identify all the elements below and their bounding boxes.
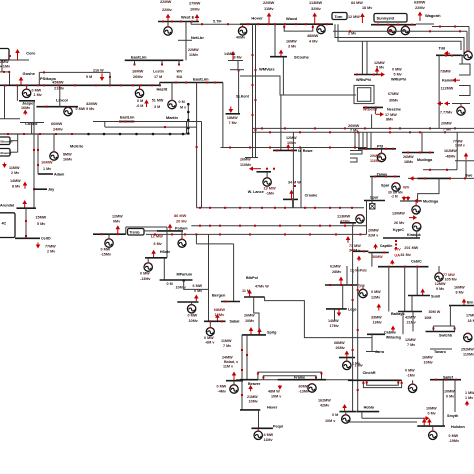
- svg-text:13 MW: 13 MW: [263, 185, 276, 190]
- flow mark: [299, 147, 301, 149]
- flow mark: [329, 147, 331, 149]
- stepped line WMVars: [240, 76, 356, 95]
- wire: [366, 41, 368, 74]
- wire Core: [8, 59, 30, 61]
- wire left down: [241, 335, 243, 410]
- flow mark: [429, 152, 431, 154]
- generator 68MW: [343, 361, 351, 369]
- svg-text:22Mv: 22Mv: [162, 7, 173, 12]
- svg-text:Hover: Hover: [251, 16, 263, 21]
- flow mark: [375, 106, 377, 108]
- bus Tyre: [325, 284, 357, 286]
- svg-text:15MW: 15MW: [36, 216, 47, 220]
- svg-text:16Mv: 16Mv: [63, 158, 73, 162]
- svg-text:WV: WV: [403, 185, 410, 190]
- svg-text:5.TIF: 5.TIF: [213, 20, 222, 24]
- flow mark: [392, 148, 394, 150]
- flow mark: [221, 320, 223, 322]
- svg-text:-2 M: -2 M: [391, 195, 398, 199]
- bus CablC: [378, 266, 429, 268]
- load arrow down Frame: [278, 385, 283, 390]
- svg-text:WRlsPhl: WRlsPhl: [391, 78, 406, 82]
- svg-text:81 Mv: 81 Mv: [401, 253, 412, 257]
- stub: [334, 309, 336, 320]
- flow mark: [33, 188, 35, 190]
- svg-text:20MW: 20MW: [348, 123, 360, 128]
- flow mark: [329, 225, 331, 227]
- flow mark: [394, 176, 396, 178]
- svg-text:1 Mv: 1 Mv: [43, 167, 52, 171]
- svg-text:11Mv: 11Mv: [189, 53, 199, 57]
- load arrow: [116, 225, 121, 233]
- bus WtDefdr: [363, 106, 383, 108]
- wire step2 to Mudinga: [418, 178, 439, 201]
- flow mark: [164, 126, 166, 128]
- svg-text:0 MW: 0 MW: [217, 385, 227, 389]
- stepped wire to Jarra: [265, 297, 372, 338]
- bus connector: [159, 83, 161, 86]
- flow mark: [199, 225, 201, 227]
- svg-text:Neezine: Neezine: [387, 108, 401, 112]
- flow mark: [385, 176, 387, 178]
- svg-text:Balad, v: Balad, v: [224, 360, 239, 364]
- flow mark: [252, 114, 254, 116]
- flow mark: [419, 152, 421, 154]
- svg-text:Trento: Trento: [130, 231, 140, 235]
- wire: [237, 61, 239, 70]
- bus Porlam: [157, 230, 183, 232]
- load arrow below bus: [357, 256, 362, 262]
- flow mark: [180, 21, 182, 23]
- svg-text:-6 M: -6 M: [136, 104, 143, 108]
- wire Kamm: [438, 55, 440, 128]
- load arrow Wood: [312, 13, 317, 24]
- svg-text:0 MW: 0 MW: [188, 314, 198, 318]
- svg-text:30M W: 30M W: [429, 310, 441, 314]
- flow arrow Kamm: [452, 78, 460, 83]
- junction: [103, 133, 106, 136]
- svg-text:32M v: 32M v: [368, 234, 379, 238]
- wire: [246, 335, 248, 380]
- svg-text:42MW: 42MW: [405, 316, 416, 320]
- flow mark: [383, 252, 385, 254]
- svg-text:84 MW: 84 MW: [351, 1, 363, 5]
- gen stem: [362, 285, 364, 290]
- bus left continuation: [0, 133, 86, 135]
- flow mark: [362, 382, 364, 384]
- flow mark: [352, 299, 354, 301]
- wire: [456, 161, 458, 170]
- wire: [412, 312, 414, 332]
- wire Jarra: [371, 334, 373, 351]
- flow mark: [276, 149, 278, 151]
- svg-text:47Mv W: 47Mv W: [255, 285, 269, 289]
- wire connector: [186, 122, 188, 135]
- flow mark: [315, 377, 317, 379]
- svg-text:11MW: 11MW: [9, 166, 20, 170]
- svg-text:32MW: 32MW: [86, 101, 98, 106]
- wire down-left: [4, 85, 6, 119]
- svg-text:0 MW: 0 MW: [405, 369, 415, 373]
- wire: [432, 326, 434, 332]
- gen stem: [26, 85, 28, 90]
- flow mark: [74, 84, 76, 86]
- flow mark: [249, 233, 251, 235]
- flow mark: [299, 131, 301, 133]
- svg-text:2 Mv: 2 Mv: [11, 171, 20, 175]
- svg-text:17MW: 17MW: [466, 314, 474, 318]
- bus EastLim 2: [160, 82, 223, 84]
- flow mark: [117, 233, 119, 235]
- svg-text:16MW: 16MW: [286, 40, 297, 44]
- svg-text:14MW: 14MW: [10, 179, 21, 183]
- flow mark: [8, 71, 10, 73]
- load arrow down Lege: [337, 310, 342, 317]
- generator Martin: [168, 100, 176, 108]
- bus HSale: [145, 257, 167, 259]
- wire: [166, 227, 168, 258]
- wire CablC-Tyre: [346, 266, 348, 285]
- svg-text:5 Mv: 5 Mv: [394, 73, 403, 77]
- gen stem: [346, 358, 348, 362]
- gen stem: [191, 302, 193, 305]
- flow mark: [273, 168, 275, 170]
- junction: [87, 133, 90, 136]
- flow mark: [305, 23, 307, 25]
- svg-text:Sunnysid: Sunnysid: [377, 16, 395, 21]
- svg-text:Turn: Turn: [335, 15, 344, 19]
- svg-text:1 Mv: 1 Mv: [465, 396, 474, 400]
- junction: [119, 133, 122, 136]
- svg-text:10Mv: 10Mv: [245, 319, 255, 323]
- svg-text:22MW: 22MW: [160, 0, 172, 4]
- flow mark: [445, 55, 447, 57]
- svg-text:West E: West E: [181, 15, 195, 20]
- wire SCoshe: [274, 24, 276, 57]
- wire Adam: [37, 134, 39, 174]
- load arrow Goshe: [19, 77, 24, 85]
- flow mark: [269, 131, 271, 133]
- flow mark: [292, 198, 294, 200]
- bus Wagonh: [416, 23, 434, 25]
- bus Swendsi: [418, 177, 451, 179]
- flow mark: [455, 379, 457, 381]
- flow mark: [175, 82, 177, 84]
- svg-text:26MW: 26MW: [240, 158, 251, 162]
- bus Lege: [326, 308, 347, 310]
- wire: [10, 151, 18, 153]
- svg-text:67MW: 67MW: [388, 92, 399, 96]
- svg-text:Adam: Adam: [54, 173, 65, 177]
- svg-text:HSale: HSale: [160, 250, 170, 254]
- flow mark: [344, 127, 346, 129]
- flow mark: [241, 369, 243, 371]
- long line upper: [93, 121, 202, 123]
- flow mark: [109, 76, 111, 78]
- wire down 26MW-mid: [300, 148, 302, 208]
- flow mark: [261, 207, 263, 209]
- flow mark: [397, 382, 399, 384]
- bus Hover-Wood: [240, 23, 333, 25]
- loop rect inner: [357, 88, 370, 102]
- line 5.TIF: [191, 23, 240, 25]
- load arrow: [194, 295, 199, 302]
- svg-text:12 MW: 12 MW: [151, 234, 164, 239]
- svg-text:252MW: 252MW: [461, 348, 474, 352]
- wire to Hulston: [349, 421, 417, 423]
- gen stem: [266, 172, 268, 179]
- flow mark: [5, 84, 7, 86]
- bus Captiln: [368, 252, 388, 254]
- wire down: [59, 85, 61, 106]
- gen stem: [257, 428, 259, 432]
- flow mark: [201, 23, 203, 25]
- flow mark: [255, 129, 257, 131]
- wire: [402, 312, 404, 335]
- flow mark: [309, 233, 311, 235]
- generator 0MW: [105, 239, 113, 247]
- bus Hoblo: [357, 411, 379, 413]
- flow mark: [16, 84, 18, 86]
- bus Pequi: [251, 427, 273, 429]
- svg-text:13Mv: 13Mv: [373, 321, 383, 325]
- load arrow 162MW: [342, 404, 347, 411]
- svg-text:12Mv: 12Mv: [215, 312, 226, 317]
- bus Haver: [240, 409, 260, 411]
- bus Mudinga: [402, 152, 434, 154]
- wire Turn loop2: [335, 24, 464, 58]
- svg-text:4C: 4C: [2, 222, 7, 226]
- load arrow Arundal: [22, 200, 27, 208]
- flow mark: [304, 207, 306, 209]
- junction: [187, 132, 190, 135]
- svg-text:11M v: 11M v: [223, 365, 234, 369]
- svg-text:10Mv: 10Mv: [190, 7, 201, 12]
- wire PStkops: [38, 72, 40, 85]
- svg-text:SLKent: SLKent: [236, 95, 250, 99]
- svg-text:162MW: 162MW: [318, 399, 331, 403]
- bus 162MW: [339, 411, 356, 413]
- load arrow Sunll: [420, 289, 425, 296]
- wire to N.Rowe: [280, 95, 282, 150]
- wire connector: [361, 412, 363, 419]
- wire: [352, 223, 354, 226]
- wire down: [468, 27, 470, 54]
- flow mark: [364, 127, 366, 129]
- generator Sargon: [206, 328, 214, 336]
- svg-text:Smyth: Smyth: [447, 414, 459, 418]
- flow mark: [312, 26, 314, 28]
- svg-text:51 MW: 51 MW: [152, 99, 164, 103]
- generator Hosp: [342, 415, 350, 423]
- svg-text:Swtchb: Swtchb: [439, 334, 453, 338]
- svg-text:21MW: 21MW: [247, 395, 258, 399]
- flow arrow: [437, 101, 443, 106]
- generator HSale: [144, 263, 152, 271]
- load arrow: [376, 304, 381, 311]
- bus 14MW: [228, 60, 243, 62]
- flow mark: [171, 233, 173, 235]
- wire MParlum: [163, 258, 165, 280]
- flow arrow down: [406, 196, 411, 201]
- flow mark: [340, 284, 342, 286]
- svg-text:Kamm: Kamm: [442, 79, 454, 83]
- wire: [190, 22, 192, 25]
- svg-text:6 MW: 6 MW: [193, 284, 203, 288]
- Frame loop inner: [263, 376, 316, 380]
- svg-text:16MW: 16MW: [454, 286, 465, 290]
- bus Beaver: [240, 379, 258, 381]
- flow mark: [247, 23, 249, 25]
- svg-text:-6M v: -6M v: [205, 340, 215, 344]
- bus 71MW: [353, 250, 368, 252]
- svg-text:-1Mv: -1Mv: [266, 192, 275, 196]
- svg-text:KyprC: KyprC: [393, 228, 404, 232]
- flow mark: [252, 54, 254, 56]
- bus Brnch: [449, 305, 474, 307]
- load arrow BthPol: [247, 290, 252, 297]
- svg-text:0 Mv: 0 Mv: [446, 395, 455, 399]
- svg-text:Pequi: Pequi: [273, 425, 283, 429]
- bus 26MW: [245, 157, 258, 159]
- svg-text:12MW: 12MW: [405, 338, 416, 342]
- wire CablC-Ballays2: [404, 267, 406, 312]
- svg-text:8Mv: 8Mv: [386, 118, 394, 122]
- flow mark: [120, 84, 122, 86]
- generator Tyre: [359, 289, 367, 297]
- flow mark: [25, 220, 27, 222]
- svg-text:40Mv: 40Mv: [236, 36, 246, 40]
- junction: [169, 133, 172, 136]
- bus Frame: [278, 379, 326, 381]
- bus Jarra: [366, 351, 379, 353]
- wire step: [423, 169, 457, 171]
- flow mark: [214, 82, 216, 84]
- flow mark: [257, 373, 259, 375]
- gen stem: [108, 234, 110, 239]
- svg-text:Sabal: Sabal: [230, 320, 240, 324]
- flow mark: [339, 207, 341, 209]
- flow mark: [389, 131, 391, 133]
- svg-text:60MW: 60MW: [299, 385, 310, 389]
- svg-text:22MW: 22MW: [263, 0, 275, 5]
- svg-text:10Mv: 10Mv: [189, 319, 199, 323]
- flow mark: [161, 64, 163, 66]
- wire corridor down: [456, 132, 458, 161]
- bus Kiraouk: [383, 237, 420, 239]
- generator Hulston: [429, 431, 437, 439]
- wire: [361, 41, 363, 74]
- svg-text:73MW: 73MW: [440, 70, 451, 74]
- svg-text:3 M: 3 M: [154, 105, 160, 109]
- bus ClnchR: [348, 379, 402, 381]
- junction: [187, 127, 190, 130]
- svg-text:Mudinga: Mudinga: [423, 199, 439, 203]
- flow mark: [352, 349, 354, 351]
- flow mark: [171, 21, 173, 23]
- bus Arundal: [17, 207, 37, 209]
- wire right edge: [465, 161, 467, 179]
- flow mark: [446, 169, 448, 171]
- svg-text:4 MW: 4 MW: [264, 433, 274, 437]
- wire CablC-Sunll: [416, 267, 418, 296]
- svg-text:WRlsPhl: WRlsPhl: [356, 78, 371, 82]
- svg-text:110Mv: 110Mv: [463, 353, 474, 357]
- flow mark: [249, 207, 251, 209]
- load arrow down: [229, 107, 234, 114]
- flow mark: [191, 21, 193, 23]
- flow mark: [37, 84, 39, 86]
- device box: [0, 137, 10, 145]
- wire right2: [357, 267, 359, 412]
- bus Adam: [38, 173, 53, 175]
- load arrow NetLbr: [195, 14, 200, 21]
- svg-text:Swe: Swe: [465, 174, 472, 178]
- wire below Porlam: [146, 233, 367, 235]
- svg-text:10MW: 10MW: [426, 407, 437, 411]
- load arrow down: [36, 243, 41, 249]
- flow mark: [459, 30, 461, 32]
- flow mark: [239, 207, 241, 209]
- gen stem: [139, 85, 141, 90]
- svg-text:11MW: 11MW: [221, 339, 232, 343]
- load arrow Jasper: [23, 110, 28, 115]
- gen stem: [416, 230, 418, 238]
- svg-text:Elswort: Elswort: [1, 151, 12, 155]
- wire Tyre-Lege: [342, 285, 344, 309]
- wire Conco: [31, 123, 33, 135]
- svg-text:WV: WV: [177, 70, 183, 74]
- svg-text:7 Mv: 7 Mv: [229, 121, 238, 125]
- flow arrow right: [378, 72, 385, 77]
- flow mark: [252, 84, 254, 86]
- svg-text:201 MW: 201 MW: [404, 246, 418, 250]
- svg-text:18Mv: 18Mv: [404, 160, 414, 164]
- svg-text:16MW: 16MW: [41, 160, 53, 165]
- svg-text:32Mv: 32Mv: [311, 6, 322, 11]
- wire: [17, 134, 19, 152]
- svg-text:28Mv: 28Mv: [332, 270, 342, 274]
- bus 68MW: [339, 357, 355, 359]
- svg-text:N. Rowe: N. Rowe: [298, 149, 313, 153]
- wire down: [222, 83, 224, 148]
- load arrow West E: [166, 14, 171, 21]
- svg-text:26Mv: 26Mv: [133, 74, 144, 79]
- wire to Sabal: [208, 234, 210, 321]
- svg-text:48MW: 48MW: [307, 33, 319, 38]
- load arrow Captiln: [373, 244, 378, 250]
- gen stem: [167, 22, 169, 28]
- svg-text:42Mv: 42Mv: [320, 404, 330, 408]
- long wire down 2: [201, 122, 203, 208]
- flow mark: [219, 233, 221, 235]
- svg-text:4 Mv: 4 Mv: [309, 39, 318, 44]
- svg-text:CellO: CellO: [41, 237, 51, 241]
- flow mark: [43, 84, 45, 86]
- bus 113MW: [340, 222, 356, 224]
- flow mark: [25, 235, 27, 237]
- load arrow 68MW: [344, 351, 349, 358]
- line PStkops-Hazlit: [39, 71, 110, 73]
- load arrow Crooke: [289, 190, 294, 199]
- bus SLKent: [226, 113, 241, 115]
- flow mark: [267, 23, 269, 25]
- load arrow Wagonh: [418, 12, 423, 22]
- load arrow SCoshe: [279, 50, 284, 57]
- generator Hazlit: [135, 89, 143, 97]
- flow mark: [162, 21, 164, 23]
- wire Beaver-Frame-162MW: [236, 379, 353, 381]
